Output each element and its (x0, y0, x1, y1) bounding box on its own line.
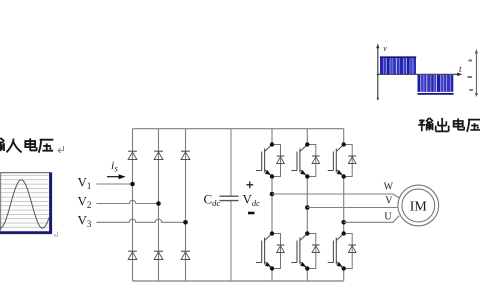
diode D3 (181, 151, 190, 159)
freewheel diode of Q6 (344, 234, 356, 269)
IGBT Q6 (328, 234, 344, 269)
motor IM inner circle (402, 189, 435, 222)
collector node of Q4 (270, 231, 274, 235)
node output phase V (305, 205, 310, 210)
wire inverter leg 3 (343, 129, 345, 281)
freewheel diode of Q3 (344, 145, 356, 177)
wire V1 to leg A (97, 183, 133, 185)
freewheel diode of Q2 (307, 145, 319, 177)
wire rectifier leg A (132, 129, 134, 281)
svg-text:IM: IM (410, 200, 428, 215)
emitter node of Q5 (305, 266, 309, 270)
emitter node of Q1 (270, 174, 274, 178)
return mark after input label (58, 146, 64, 153)
wire DC link branch (230, 129, 232, 281)
wire phase W to motor (272, 194, 399, 198)
node phase A junction (130, 182, 135, 187)
wire inverter leg 1 (271, 129, 273, 281)
collector node of Q3 (342, 142, 346, 146)
current arrow i_s (107, 174, 126, 179)
plus sign of V_dc (246, 181, 253, 188)
PWM negative pulse group (418, 75, 454, 94)
IGBT Q3 (328, 145, 344, 177)
collector node of Q1 (270, 142, 274, 146)
collector node of Q2 (305, 142, 309, 146)
minus sign of V_dc (248, 212, 255, 215)
IGBT Q4 (256, 234, 272, 269)
label 输出电压 (output voltage) (418, 118, 480, 132)
node phase C junction (183, 220, 188, 225)
motor IM outer circle (398, 185, 439, 226)
svg-text:W: W (384, 182, 394, 193)
freewheel diode of Q4 (272, 234, 284, 269)
small mark below input plot (54, 232, 58, 237)
emitter node of Q3 (342, 174, 346, 178)
diode D5 (154, 251, 163, 259)
IGBT Q1 (256, 145, 272, 177)
IGBT Q2 (291, 145, 307, 177)
diode D4 (128, 251, 137, 259)
output waveform t axis (377, 73, 463, 77)
wire V3 to leg C (hops over legs A,B) (97, 219, 186, 222)
svg-text:v: v (383, 44, 387, 53)
freewheel diode of Q5 (307, 234, 319, 269)
wire rectifier leg C (185, 129, 187, 281)
collector node of Q5 (305, 231, 309, 235)
PWM positive pulse group (380, 57, 416, 74)
label 输入电压 (input voltage) (0, 138, 53, 153)
wire bottom DC bus (133, 280, 344, 282)
clipped annotation at right edge (468, 49, 479, 97)
diode D1 (128, 151, 137, 159)
node output phase W (270, 192, 275, 197)
emitter node of Q4 (270, 266, 274, 270)
node phase B junction (156, 201, 161, 206)
collector node of Q6 (342, 231, 346, 235)
capacitor C_dc (220, 196, 239, 200)
IGBT Q5 (291, 234, 307, 269)
emitter node of Q2 (305, 174, 309, 178)
diode D2 (154, 151, 163, 159)
diode D6 (181, 251, 190, 259)
emitter node of Q6 (342, 266, 346, 270)
freewheel diode of Q1 (272, 145, 284, 177)
svg-text:V: V (385, 196, 393, 207)
wire V2 to leg B (hop over leg A) (97, 200, 159, 203)
node output phase U (341, 220, 346, 225)
svg-text:U: U (384, 212, 392, 223)
wire top DC bus (133, 128, 344, 130)
wire phase U to motor (344, 216, 400, 223)
wire rectifier leg B (158, 129, 160, 281)
input waveform plot frame (0, 173, 52, 235)
output waveform v axis (376, 43, 379, 101)
wire phase V to motor (307, 207, 398, 209)
wire inverter leg 2 (306, 129, 308, 281)
input sine wave (0, 180, 50, 228)
